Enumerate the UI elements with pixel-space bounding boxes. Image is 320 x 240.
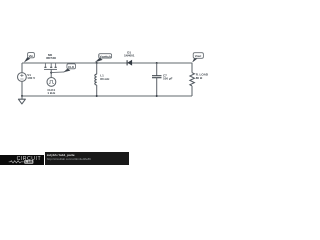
resistor R_LOAD [190,73,195,86]
wire right column top [191,63,193,73]
wire CLK flag leader [51,71,64,74]
svg-text:100 µF: 100 µF [163,77,173,81]
svg-text:80 mH: 80 mH [100,77,109,81]
wire top rail [22,62,192,64]
transistor M0 (NMOS, horizontal) [44,63,57,78]
CircuitLab logo box [0,155,44,165]
logo LAB badge [24,160,33,164]
node junction V1/ground [21,95,23,97]
logo resistor squiggle [9,161,24,163]
attribution box [45,152,129,165]
node junction C7 top [156,62,158,64]
svg-text:100 V: 100 V [27,76,35,80]
node junction gate/CLK flag [50,72,52,74]
ground [18,96,25,104]
svg-text:Vin: Vin [29,54,34,58]
svg-text:1 kHz: 1 kHz [47,91,55,95]
wire V1 bottom lead [21,81,23,96]
svg-text:1N4001: 1N4001 [124,54,135,58]
voltage source V1 [18,73,27,82]
wire right column bottom [191,86,193,96]
svg-text:CLK: CLK [68,65,75,69]
svg-text:80 Ω: 80 Ω [196,76,203,80]
capacitor C7 [152,63,162,96]
svg-text:Vswitch: Vswitch [100,54,112,58]
flag CLK [63,64,75,73]
node Vswitch junction [96,62,98,64]
node junction L1 bottom [96,95,98,97]
wire bottom rail [22,95,192,97]
flag Vout [192,53,203,63]
svg-text:IRF530: IRF530 [46,56,56,60]
wire V1 top lead [21,63,23,73]
svg-text:Vout: Vout [195,54,201,58]
diode D1 [127,60,132,66]
node junction C7 bottom [156,95,158,97]
clock source CLK1 [47,78,56,87]
inductor L1 [95,63,97,96]
flag Vswitch [95,54,112,63]
flag Vin [24,53,35,63]
